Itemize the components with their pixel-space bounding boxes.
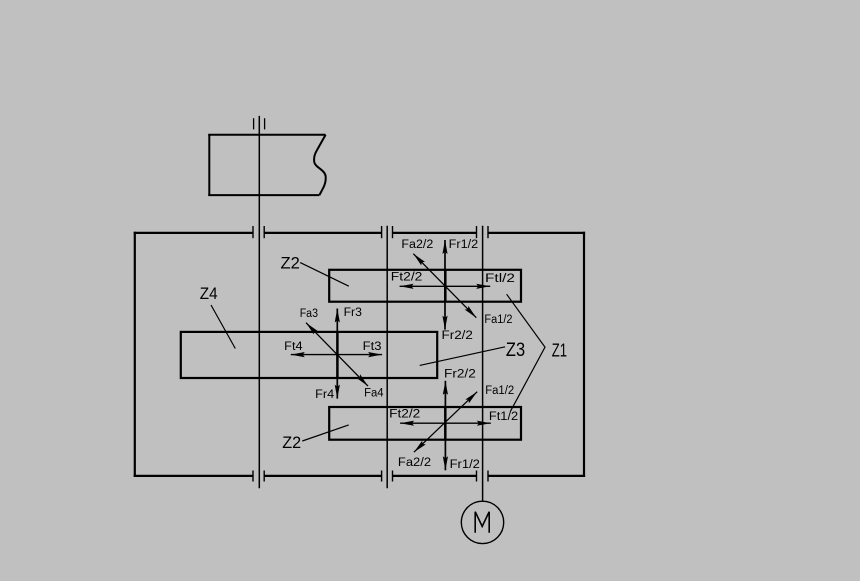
svg-text:Fr1/2: Fr1/2 bbox=[450, 459, 480, 471]
svg-text:Z3: Z3 bbox=[506, 339, 525, 361]
svg-text:Fr2/2: Fr2/2 bbox=[444, 368, 476, 380]
svg-text:Ft2/2: Ft2/2 bbox=[391, 271, 423, 283]
svg-text:Ft2/2: Ft2/2 bbox=[389, 409, 420, 421]
svg-text:Ft4: Ft4 bbox=[284, 341, 303, 353]
svg-text:Fa4: Fa4 bbox=[364, 388, 384, 400]
svg-text:Ft3: Ft3 bbox=[363, 341, 382, 353]
svg-text:Fa2/2: Fa2/2 bbox=[401, 239, 433, 251]
svg-text:Fr2/2: Fr2/2 bbox=[442, 330, 473, 342]
svg-text:Fa3: Fa3 bbox=[300, 308, 318, 320]
svg-text:Fa2/2: Fa2/2 bbox=[398, 457, 431, 469]
svg-text:Ft1/2: Ft1/2 bbox=[489, 411, 518, 423]
svg-text:Z2: Z2 bbox=[282, 433, 301, 452]
svg-text:Fr1/2: Fr1/2 bbox=[449, 239, 479, 251]
svg-text:Z2: Z2 bbox=[281, 253, 300, 272]
svg-text:Z4: Z4 bbox=[200, 284, 218, 303]
svg-text:Fr4: Fr4 bbox=[315, 389, 335, 401]
svg-text:Z1: Z1 bbox=[552, 340, 567, 361]
svg-text:Fa1/2: Fa1/2 bbox=[484, 314, 512, 326]
svg-text:Fr3: Fr3 bbox=[344, 307, 362, 319]
svg-text:Ftl/2: Ftl/2 bbox=[485, 273, 515, 285]
svg-text:Fa1/2: Fa1/2 bbox=[485, 385, 514, 397]
